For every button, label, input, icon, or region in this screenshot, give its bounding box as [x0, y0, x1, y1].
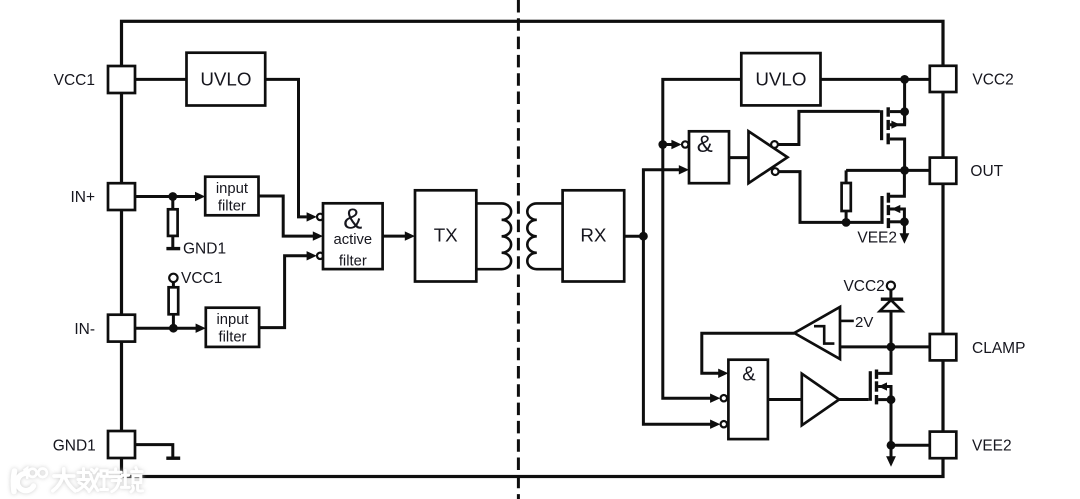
wire VCC2 circle to diode: [889, 290, 892, 299]
arrowhead NAND3 middle input: [710, 394, 720, 403]
wire VEE2 net to pin: [891, 444, 930, 447]
wire clamp source to VEE2 net: [890, 400, 893, 446]
wire VCC2 rail: [821, 78, 930, 81]
arrowhead NAND3 top input: [718, 369, 728, 378]
wire clamp buffer to clamp FET gate: [839, 398, 869, 401]
wire comparator output to NAND3 top input: [702, 333, 795, 373]
arrowhead NAND2 lower input: [679, 165, 689, 174]
wire R2 to IN- line: [172, 314, 175, 328]
node NMOS gate junction: [842, 218, 851, 227]
transistor Q3 clamp NMOS: [870, 347, 891, 405]
transistor Q2 NMOS low-side: [882, 170, 904, 228]
pin VCC1: [108, 66, 135, 93]
node OUT junction: [900, 166, 909, 175]
pin VEE2: [930, 432, 957, 459]
wire active filter to TX: [383, 235, 407, 238]
wire RX output: [624, 235, 643, 238]
wire input filter 2 to active filter bottom input: [259, 256, 308, 328]
wire input filter 1 to active filter middle input: [259, 196, 315, 236]
svg-text:VCC2: VCC2: [843, 278, 884, 295]
ground GND1 pin tick: [166, 457, 180, 460]
power VEE2 arrow upper: [903, 222, 906, 235]
wire CLAMP rail: [840, 345, 930, 348]
pin IN+: [108, 183, 135, 210]
wire R1 to ground: [171, 236, 174, 248]
watermark logo and text: [13, 468, 142, 492]
svg-text:UVLO: UVLO: [200, 68, 251, 89]
op block TX: [415, 190, 476, 281]
node NMOS source junction: [900, 217, 909, 226]
transformer secondary coil: [527, 203, 562, 269]
ground GND1 tick: [166, 247, 180, 250]
diode D1 clamp (anode triangle): [880, 300, 902, 311]
hysteresis symbol: [814, 326, 834, 343]
pin IN-: [108, 315, 135, 342]
op block input filter 2: [206, 308, 259, 347]
svg-text:VCC1: VCC1: [181, 270, 222, 287]
wire OUT rail: [846, 169, 930, 172]
node CLAMP junction: [887, 343, 896, 352]
arrowhead into input filter 2: [196, 324, 206, 333]
svg-text:input: input: [216, 181, 248, 197]
wire VCC1 pin to UVLO1: [135, 78, 187, 81]
svg-text:VEE2: VEE2: [972, 437, 1012, 454]
svg-text:RX: RX: [580, 225, 607, 246]
bubble NAND3 middle input: [721, 395, 727, 401]
transistor Q1 PMOS high-side: [882, 107, 905, 170]
arrowhead active filter bottom input: [307, 251, 317, 260]
wire RX node up to NAND2 input: [643, 170, 680, 236]
pin CLAMP: [930, 334, 957, 360]
arrowhead into TX: [405, 231, 415, 240]
transformer primary coil: [476, 203, 511, 269]
bubble active filter bottom input: [317, 253, 323, 259]
wire diode to CLAMP net: [890, 311, 893, 347]
op block UVLO2: [741, 53, 820, 105]
wire VCC1 circle to resistor R2: [172, 282, 175, 287]
node UVLO2 branch junction: [658, 140, 667, 149]
node VCC2 terminal circle: [887, 282, 895, 290]
svg-text:active: active: [333, 232, 372, 248]
node VCC2 rail junction: [900, 75, 909, 84]
isolation barrier dashed line: [517, 0, 520, 499]
arrowhead active filter middle input: [313, 231, 323, 240]
wire GND1 pin to ground: [135, 445, 173, 457]
wire OUT to resistor R3: [845, 170, 848, 183]
svg-text:filter: filter: [339, 253, 367, 269]
node VCC1 terminal circle: [169, 274, 177, 282]
node IN+ junction: [168, 192, 177, 201]
resistor R1: [168, 209, 178, 236]
svg-text:VCC2: VCC2: [972, 72, 1013, 89]
node PMOS source junction: [900, 107, 909, 116]
wire branch to NAND2 top input: [663, 143, 673, 146]
wire driver top output to PMOS gate: [778, 111, 880, 144]
gate NAND3 (clamp AND): [728, 360, 768, 439]
bubble active filter top input: [317, 214, 323, 220]
svg-text:filter: filter: [218, 198, 246, 214]
svg-text:GND1: GND1: [183, 241, 226, 258]
svg-text:filter: filter: [219, 329, 247, 345]
resistor R3: [842, 183, 851, 211]
node IN- junction: [169, 324, 178, 333]
wire 2V reference stub: [840, 320, 854, 323]
wire VCC2 down to PMOS source: [903, 79, 906, 124]
svg-text:OUT: OUT: [970, 163, 1003, 180]
svg-text:2V: 2V: [855, 314, 873, 331]
power VEE2 arrow lower: [890, 445, 893, 457]
pin VCC2: [930, 66, 957, 92]
op-amp driver buffer U2: [749, 131, 788, 183]
svg-text:TX: TX: [434, 225, 458, 246]
svg-text:input: input: [216, 312, 248, 328]
bubble NAND2 top input: [682, 141, 688, 147]
arrowhead NAND3 bottom input: [710, 420, 720, 429]
svg-text:GND1: GND1: [53, 437, 96, 454]
node VEE2 net junction: [887, 441, 896, 450]
svg-text:UVLO: UVLO: [755, 68, 806, 89]
bubble NAND3 bottom input: [721, 421, 727, 427]
svg-text:&: &: [343, 203, 362, 235]
wire RX node down to NAND3 bottom input: [643, 236, 711, 424]
bubble driver top output: [771, 141, 778, 148]
comparator U3 (2V clamp threshold): [794, 307, 840, 359]
wire UVLO1 output to AND gate top input: [265, 79, 307, 217]
wire driver bottom output to NMOS gate: [779, 172, 881, 223]
gate NAND2 (output AND): [689, 131, 729, 183]
svg-text:IN-: IN-: [74, 321, 95, 338]
diode D1 clamp (cathode bar): [881, 298, 903, 301]
op block RX: [563, 190, 625, 281]
arrowhead into active filter top input: [307, 212, 317, 221]
pin OUT: [930, 158, 957, 184]
wire NAND2 to driver buffer: [729, 156, 749, 159]
svg-text:IN+: IN+: [70, 189, 95, 206]
arrowhead NAND2 top input: [671, 140, 681, 149]
IC outer border: [122, 21, 944, 476]
arrowhead into input filter 1: [195, 192, 205, 201]
resistor R2: [169, 287, 179, 314]
node clamp FET source junction: [887, 395, 896, 404]
node RX output junction: [639, 232, 648, 241]
wire IN+ to input filter 1: [135, 195, 198, 198]
wire R3 to NMOS gate line: [845, 211, 848, 222]
svg-text:VCC1: VCC1: [54, 72, 95, 89]
wire IN- to input filter 2: [135, 327, 198, 330]
svg-text:VEE2: VEE2: [857, 230, 897, 247]
op-amp clamp buffer U4: [802, 374, 839, 426]
svg-text:&: &: [697, 131, 713, 158]
svg-text:CLAMP: CLAMP: [972, 340, 1025, 357]
svg-text:&: &: [742, 363, 756, 385]
op block input filter 1: [205, 177, 258, 216]
op block AND active filter U1: [323, 203, 383, 269]
bubble driver bottom output: [772, 168, 779, 175]
wire NAND3 to clamp buffer: [768, 398, 802, 401]
wire IN+ to resistor R1: [171, 197, 174, 210]
pin GND1: [108, 431, 135, 458]
wire UVLO2 left to NAND gates: [663, 79, 742, 398]
op block UVLO1: [187, 53, 266, 106]
